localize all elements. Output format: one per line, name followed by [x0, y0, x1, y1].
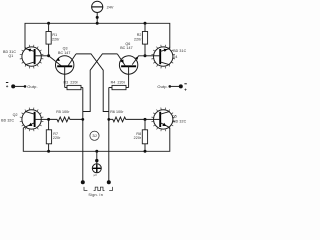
svg-text:Q1: Q1: [8, 54, 13, 58]
wire top supply rail: [25, 23, 170, 48]
node R7/bottom rail: [47, 150, 50, 153]
svg-text:220r: 220r: [134, 136, 142, 140]
label Q6: [120, 42, 132, 50]
svg-text:Sign. In: Sign. In: [88, 193, 103, 197]
resistor R7: [46, 119, 61, 151]
resistor R6: [109, 110, 145, 122]
resistor R8: [134, 119, 148, 151]
svg-text:BC 147: BC 147: [120, 46, 132, 50]
svg-text:220r: 220r: [52, 38, 60, 42]
wire Q3 collector to right column (crossover): [76, 54, 109, 112]
transistor Q3 BC147 (left driver): [49, 54, 76, 88]
svg-text:Outp.: Outp.: [27, 84, 37, 89]
svg-text:R1: R1: [52, 33, 57, 37]
svg-text:Outp.: Outp.: [157, 84, 167, 89]
signal input bracket and waveform: [84, 187, 113, 197]
svg-text:BC 147: BC 147: [58, 51, 70, 55]
svg-text:24V: 24V: [107, 5, 114, 9]
node R6/right column: [107, 118, 110, 121]
transistor Q6 BC147 (right driver): [117, 54, 145, 88]
terminal signal input left: [81, 180, 85, 184]
resistor R1: [46, 22, 60, 56]
node R2/Q4 base: [144, 54, 147, 57]
node Q2 base: [47, 118, 50, 121]
terminal signal input right: [107, 180, 111, 184]
resistor R4: [109, 81, 129, 90]
transistor Q4 BD31C (top-right power): [145, 45, 175, 69]
svg-text:3J: 3J: [92, 133, 96, 138]
svg-text:R5 100r: R5 100r: [56, 110, 70, 114]
svg-text:Q2: Q2: [13, 113, 18, 117]
svg-text:R6 100r: R6 100r: [110, 110, 124, 114]
resistor R5: [49, 110, 83, 122]
node R5/left column: [81, 118, 84, 121]
label Q1: [3, 50, 16, 58]
resistor R2: [134, 22, 148, 56]
generator signal source: [92, 151, 101, 177]
node generator/bottom rail: [95, 150, 98, 153]
wire bottom rail: [23, 128, 170, 152]
svg-text:BD 31C: BD 31C: [173, 49, 186, 53]
svg-text:BD 32C: BD 32C: [1, 118, 14, 122]
label Q2: [1, 113, 17, 122]
node R1/Q1 base: [47, 54, 50, 57]
svg-text:µV: µV: [94, 173, 97, 177]
wire Q6 collector to left column (crossover): [83, 54, 118, 112]
resistor R3: [64, 81, 83, 90]
svg-text:220r: 220r: [134, 38, 142, 42]
terminal output left: [6, 83, 38, 90]
label Q4: [173, 49, 187, 59]
battery 24V source: [92, 1, 114, 25]
node Q5 base: [144, 118, 147, 121]
wire left input column: [82, 88, 84, 183]
svg-text:R2: R2: [137, 33, 142, 37]
svg-text:Q5: Q5: [172, 114, 177, 118]
svg-text:Q3: Q3: [63, 47, 68, 51]
transistor Q2 BD32C (bottom-left power): [20, 108, 49, 132]
terminal output right: [157, 84, 186, 91]
svg-text:Q4: Q4: [173, 55, 178, 59]
node R8/bottom rail: [144, 150, 147, 153]
node marker 3J: [90, 131, 99, 140]
transistor Q5 BD32C (bottom-right power): [145, 108, 175, 132]
transistor Q1 BD31C (top-left power): [20, 45, 49, 69]
svg-text:220r: 220r: [53, 136, 61, 140]
label Q5: [172, 114, 187, 123]
svg-text:R4 220r: R4 220r: [111, 81, 126, 85]
svg-text:BD 32C: BD 32C: [173, 119, 186, 123]
label Q3: [58, 47, 70, 55]
svg-text:R3 220r: R3 220r: [64, 81, 79, 85]
wire right input column: [108, 88, 110, 183]
